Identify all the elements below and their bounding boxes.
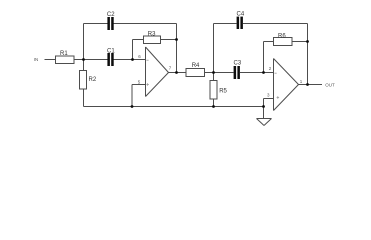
junction U2 output (306, 83, 309, 86)
junction R3/vertical (175, 38, 178, 41)
wire top rail right to C4 (214, 23, 237, 25)
wire R4 to C3 (205, 72, 234, 74)
wire R2 to bottom rail (83, 89, 85, 107)
node IN wire (45, 59, 56, 61)
wire bottom rail (84, 106, 264, 108)
wire top rail left (C2 feedback) (84, 23, 108, 25)
junction U1 output (175, 71, 178, 74)
junction R6/vertical (306, 40, 309, 43)
op-amp U2 plus mark (277, 96, 280, 99)
junction R5 bottom rail (212, 105, 215, 108)
capacitor C4 (237, 17, 243, 29)
op-amp U2 minus mark (275, 72, 277, 74)
junction ground bottom rail (262, 105, 265, 108)
svg-text:R4: R4 (192, 63, 200, 69)
resistor R6 (274, 38, 293, 46)
capacitor C1 (107, 53, 113, 66)
resistor R3 (144, 36, 161, 44)
junction R5/C4 tap (212, 71, 215, 74)
svg-text:C1: C1 (107, 49, 115, 55)
wire node A up to top rail (83, 24, 85, 71)
resistor R5 (210, 81, 217, 100)
wire U1 output to R4 (169, 72, 187, 74)
svg-text:OUT: OUT (325, 82, 335, 87)
wire U1 pin5 (132, 84, 146, 86)
wire C2 right to corner (114, 23, 177, 25)
wire R5 bottom to rail (213, 99, 215, 107)
resistor R2 (80, 71, 87, 90)
ground (257, 119, 272, 126)
wire vertical C2/R3 to output node (176, 24, 178, 73)
wire R3 right (161, 39, 177, 41)
wire vertical C4/R6 to output node (307, 24, 309, 85)
wire R5 top stub (213, 73, 215, 81)
svg-text:R5: R5 (219, 88, 227, 94)
wire C1 to op-amp U1 pin6 (114, 59, 146, 61)
junction pin5 bottom rail (131, 105, 134, 108)
op-amp U1 minus mark (146, 59, 148, 61)
wire R3 left (133, 39, 144, 41)
wire R6 tap up from pin2 wire (263, 42, 265, 73)
svg-text:R3: R3 (148, 31, 156, 37)
resistor R4 (186, 69, 205, 77)
svg-text:R1: R1 (60, 51, 68, 57)
op-amp U1 plus mark (146, 83, 149, 86)
wire R1 to node A (74, 59, 107, 61)
junction R6 tap (262, 71, 265, 74)
wire U2 output (299, 84, 323, 86)
svg-text:R6: R6 (278, 33, 286, 39)
wire R6 left (264, 41, 274, 43)
wire C4 branch vertical (213, 24, 215, 73)
wire node B up to R3 (132, 40, 134, 60)
resistor R1 (56, 56, 75, 64)
svg-text:C3: C3 (234, 61, 242, 67)
wire U1 pin5 down to bottom rail (131, 85, 133, 107)
node A junction (82, 58, 85, 61)
svg-text:IN: IN (34, 57, 39, 62)
op-amp U1 (146, 47, 169, 97)
wire U2 pin3 down to ground (263, 99, 265, 119)
wire C3 to op-amp U2 pin2 (240, 72, 274, 74)
svg-text:C4: C4 (237, 12, 245, 18)
wire C4 right to corner (243, 23, 308, 25)
svg-text:R2: R2 (89, 77, 97, 83)
capacitor C3 (234, 66, 240, 79)
wire U2 pin3 (264, 98, 274, 100)
op-amp U2 (274, 59, 299, 111)
capacitor C2 (107, 17, 113, 30)
wire R6 right (292, 41, 308, 43)
node B junction (131, 58, 134, 61)
svg-text:C2: C2 (107, 12, 115, 18)
